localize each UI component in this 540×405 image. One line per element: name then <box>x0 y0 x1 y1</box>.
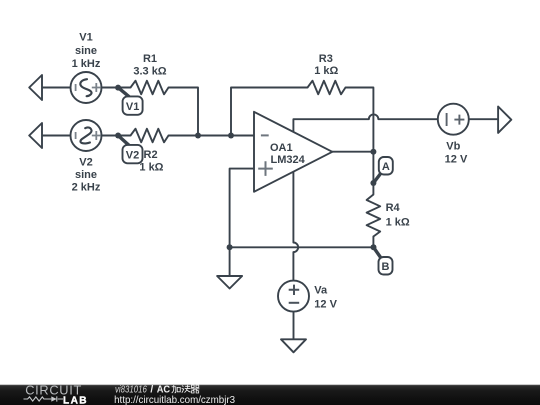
node tag A box <box>379 157 393 175</box>
voltage source Vb circle <box>438 104 469 135</box>
svg-text:Va: Va <box>314 285 328 297</box>
svg-text:R3: R3 <box>319 53 333 65</box>
svg-text:V1: V1 <box>126 101 139 113</box>
junction dot feedback branch <box>228 133 234 139</box>
ground symbol left <box>217 276 242 289</box>
svg-text:Vb: Vb <box>446 140 460 152</box>
V2 sine waveform glyph <box>80 127 91 143</box>
footer CJK title glyphs <box>172 385 200 393</box>
wire R4 to node B <box>372 237 374 248</box>
Vb plus terminal mark <box>454 115 464 125</box>
V1 sine waveform glyph <box>80 79 91 96</box>
node tag B box <box>379 257 393 275</box>
voltage source V1 circle <box>71 72 102 103</box>
ground symbol under Va <box>281 339 306 352</box>
input port V1 flag <box>29 75 42 100</box>
node tag V1 tether <box>118 88 130 98</box>
svg-text:1 kΩ: 1 kΩ <box>139 161 163 173</box>
node tag V2 box <box>123 145 143 163</box>
wire op-amp output <box>332 151 373 153</box>
V2 minus terminal mark <box>75 132 77 139</box>
V1 minus terminal mark <box>75 84 77 91</box>
svg-text:LAB: LAB <box>63 395 88 405</box>
svg-text:1 kΩ: 1 kΩ <box>314 65 338 77</box>
svg-text:12 V: 12 V <box>445 153 468 165</box>
footer bar <box>0 385 540 405</box>
svg-text:OA1: OA1 <box>270 142 293 154</box>
output port flag <box>498 107 511 133</box>
wire V2 port to source <box>42 135 70 137</box>
input port V2 flag <box>29 123 42 148</box>
junction dot node A tag <box>370 180 376 186</box>
svg-text:sine: sine <box>75 45 97 57</box>
node tag A tether <box>373 173 381 183</box>
voltage source V2 circle <box>71 120 102 151</box>
wire V1 port to source <box>42 87 71 89</box>
resistor R4 <box>367 195 381 237</box>
wire op-amp V+ pin to Vb with hop over feedback <box>293 114 437 133</box>
junction dot V2 tag <box>115 133 121 139</box>
junction dot node B tag <box>371 244 377 250</box>
wire R3 to feedback right vertical <box>346 88 374 152</box>
resistor R1 <box>131 81 169 95</box>
node tag V1 box <box>123 96 143 114</box>
wire R1 to corner <box>169 88 199 136</box>
junction dot output node <box>370 149 376 155</box>
svg-text:A: A <box>382 161 390 173</box>
svg-text:12 V: 12 V <box>314 299 337 311</box>
svg-text:V1: V1 <box>79 32 92 44</box>
svg-text:http://circuitlab.com/czmbjr3: http://circuitlab.com/czmbjr3 <box>114 395 235 405</box>
wire op-amp V- pin to Va with hop over rail <box>293 165 298 281</box>
junction dot R1 branch <box>195 133 201 139</box>
junction dot rail left <box>227 244 233 250</box>
wire output node to R4 <box>372 152 374 195</box>
wire ground rail <box>230 246 374 248</box>
node tag V2 tether <box>118 136 130 147</box>
svg-text:2 kHz: 2 kHz <box>72 181 101 193</box>
op-amp noninverting input mark <box>258 161 273 176</box>
logo diode triangle <box>51 396 57 401</box>
svg-text:LM324: LM324 <box>271 154 306 166</box>
svg-text:3.3 kΩ: 3.3 kΩ <box>133 66 166 78</box>
svg-text:1 kΩ: 1 kΩ <box>386 217 410 229</box>
svg-text:V2: V2 <box>79 156 92 168</box>
svg-text:V2: V2 <box>126 149 139 161</box>
svg-text:R4: R4 <box>386 202 401 214</box>
V2 plus terminal mark <box>92 131 101 140</box>
svg-text:B: B <box>382 261 390 273</box>
svg-text:R1: R1 <box>143 53 157 65</box>
wire op-amp noninverting input to ground column <box>230 169 254 248</box>
Va plus terminal mark <box>289 285 300 295</box>
ground stem left <box>229 247 231 276</box>
wire Va to ground <box>293 312 295 340</box>
wire V2 source to R2 <box>101 135 130 137</box>
Vb minus terminal mark <box>446 113 448 126</box>
op-amp OA1 triangle <box>254 112 332 192</box>
svg-text:1 kHz: 1 kHz <box>72 58 101 70</box>
wire R2 to op-amp inverting input <box>169 135 255 137</box>
op-amp inverting input mark <box>261 134 269 136</box>
wire feedback left branch <box>231 88 308 136</box>
logo wire resistor diode motif <box>24 396 64 401</box>
svg-text:R2: R2 <box>144 149 158 161</box>
resistor R2 <box>131 129 169 143</box>
resistor R3 <box>308 81 346 95</box>
Va minus terminal mark <box>289 302 300 304</box>
junction dot V1 tag <box>115 85 121 91</box>
V1 plus terminal mark <box>92 83 101 92</box>
voltage source Va circle <box>278 281 309 312</box>
wire Vb to output port <box>469 118 498 120</box>
node tag B tether <box>374 247 382 258</box>
svg-text:sine: sine <box>75 169 97 181</box>
wire V1 source to R1 <box>102 87 131 89</box>
